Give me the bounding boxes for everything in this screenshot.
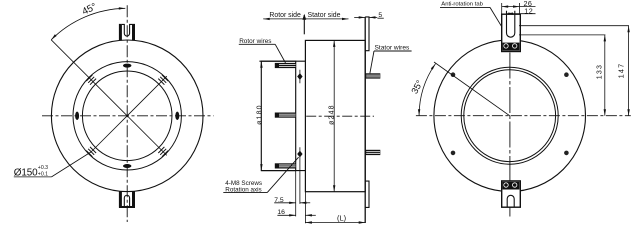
svg-text:12: 12	[524, 6, 533, 15]
svg-text:+0.1: +0.1	[38, 172, 48, 178]
svg-text:Stator wires: Stator wires	[375, 44, 411, 51]
svg-text:ø180: ø180	[257, 104, 264, 125]
svg-text:(L): (L)	[337, 213, 346, 222]
svg-text:Ø150: Ø150	[14, 167, 38, 178]
svg-text:Anti-rotation tab: Anti-rotation tab	[441, 1, 483, 7]
svg-text:133: 133	[596, 64, 603, 79]
svg-text:+0.3: +0.3	[38, 165, 48, 171]
svg-text:Stator side: Stator side	[308, 12, 341, 19]
svg-text:ø248: ø248	[329, 104, 336, 125]
svg-text:147: 147	[616, 63, 625, 79]
svg-text:Rotor side: Rotor side	[269, 12, 301, 19]
